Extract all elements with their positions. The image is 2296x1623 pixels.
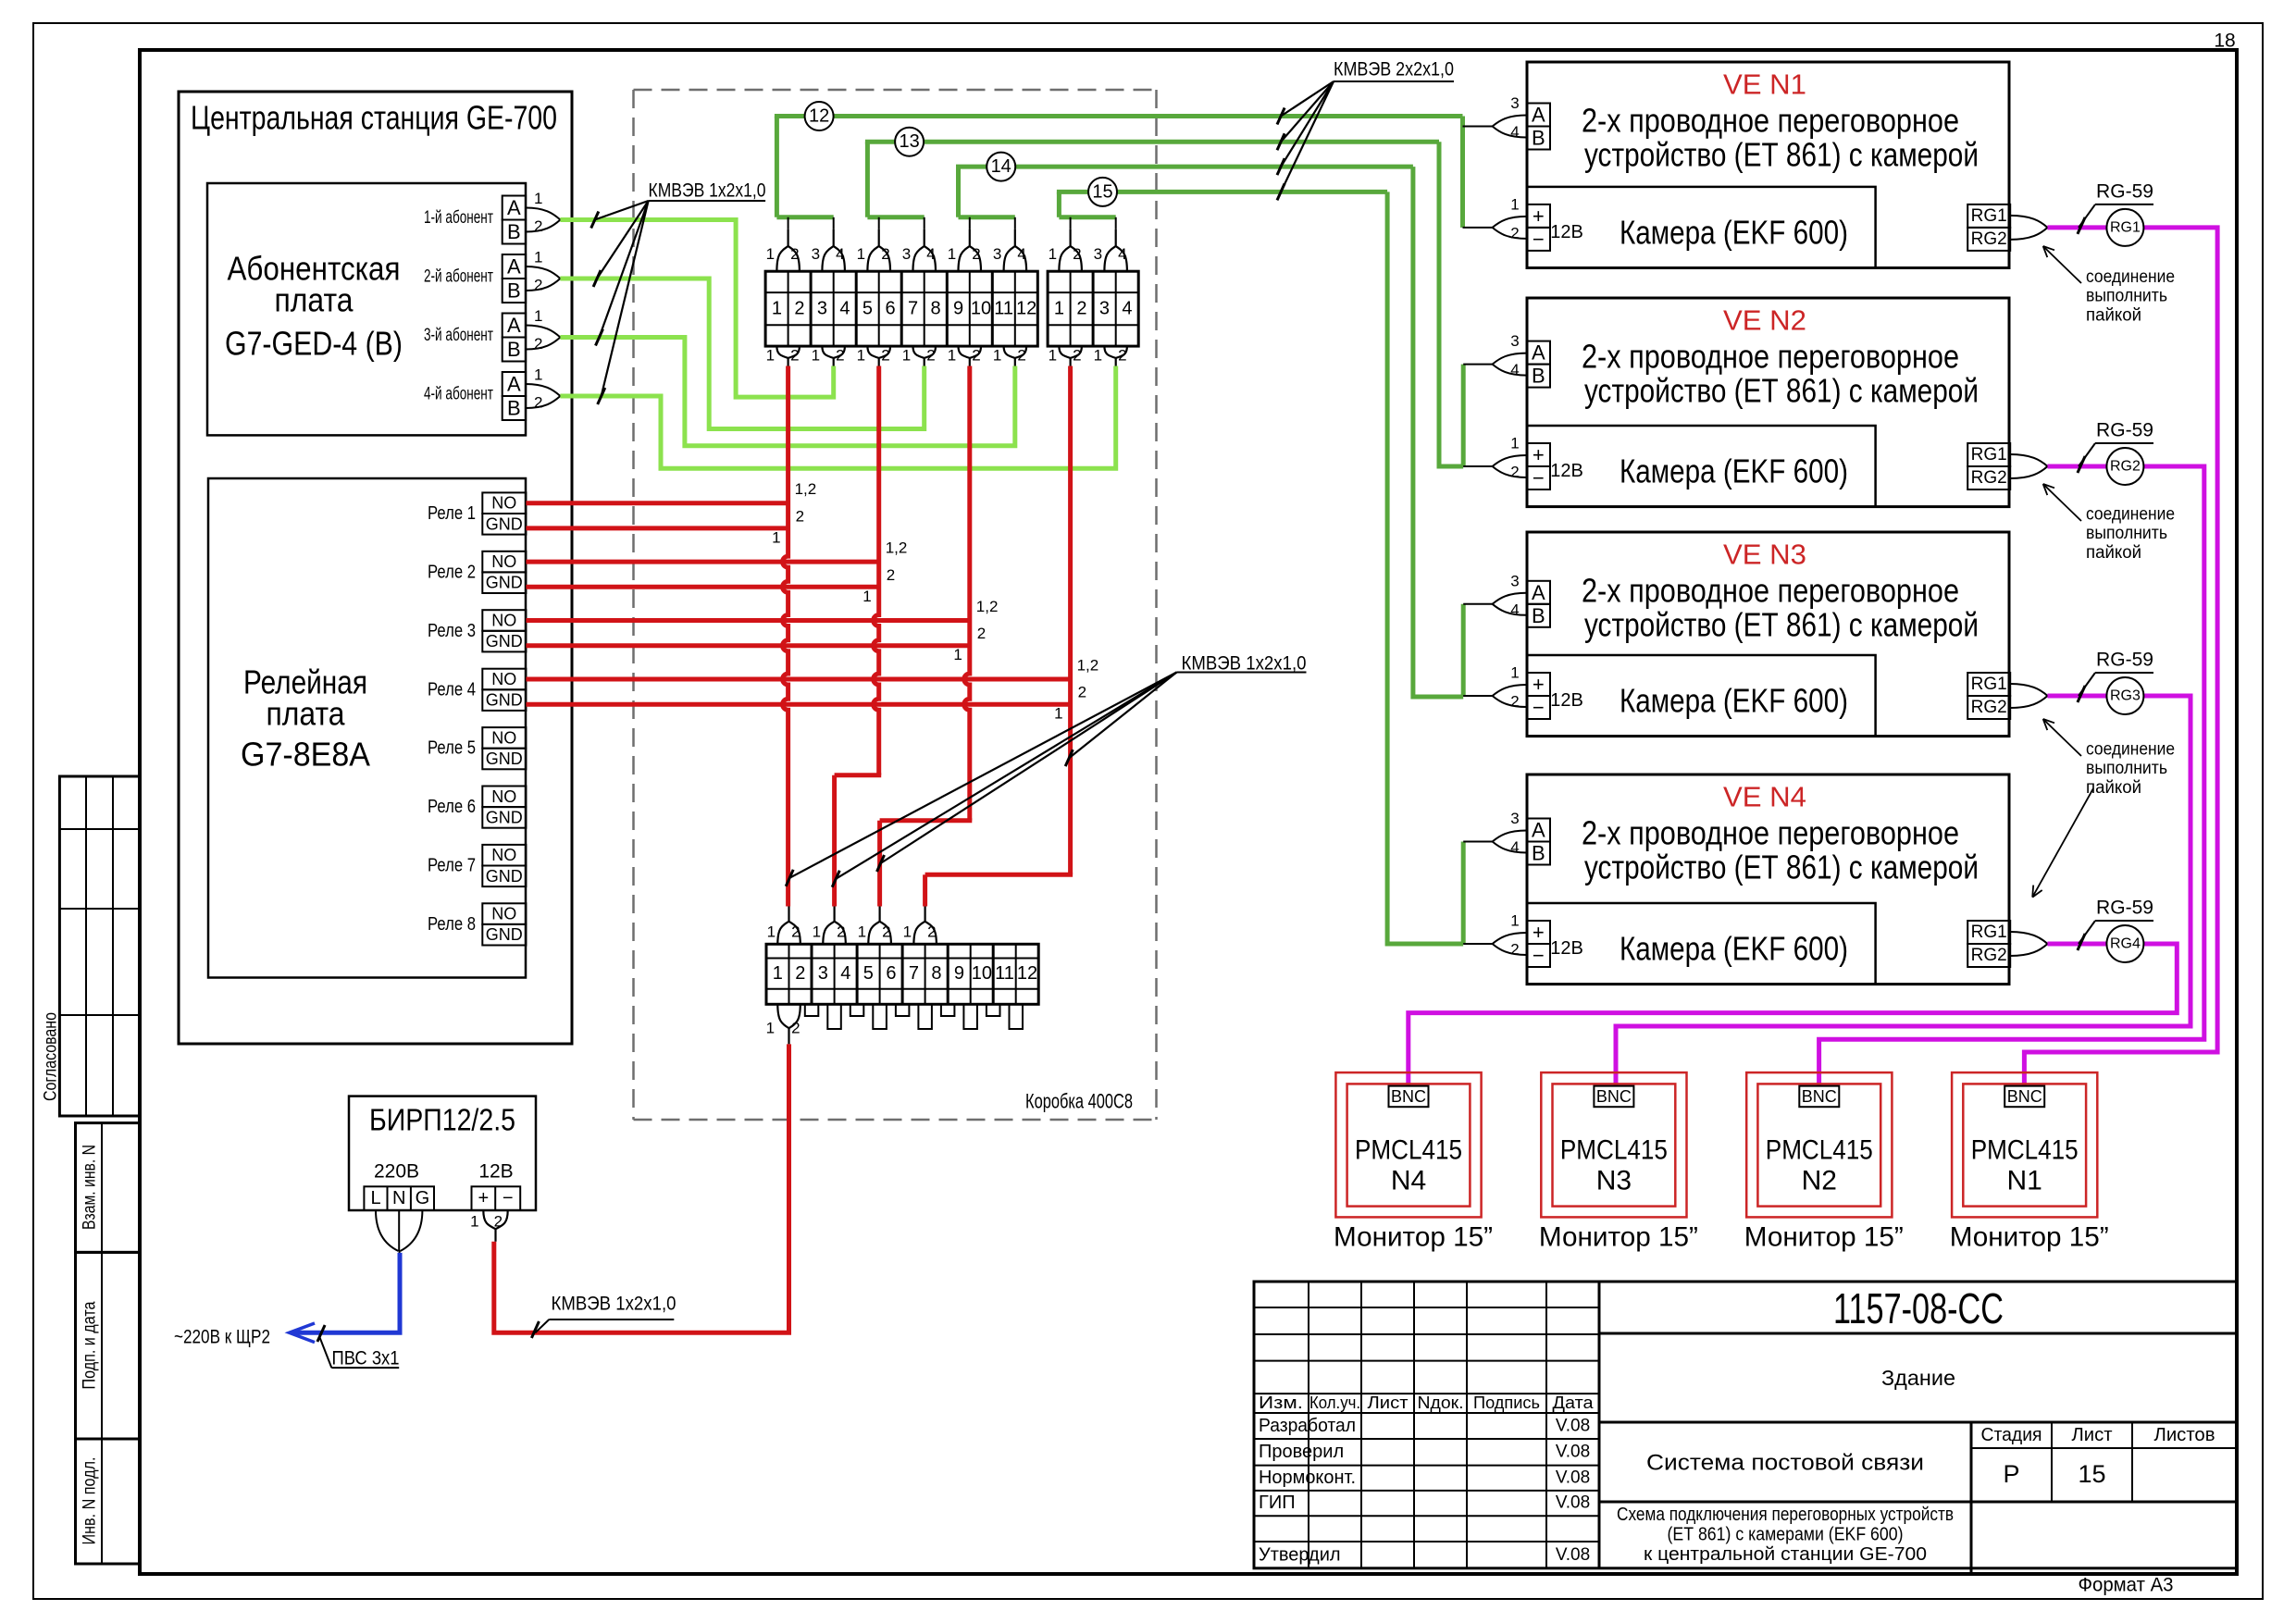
wire subscriber 1 A/B pair (КМВЭВ 1х2х1,0) <box>560 220 833 398</box>
document code 1157-08-СС <box>1833 1284 2004 1332</box>
title block grid <box>1254 1282 2237 1574</box>
svg-text:12В: 12В <box>1550 222 1583 242</box>
svg-text:9: 9 <box>954 963 964 984</box>
subscriber board box G7-GED-4 <box>207 183 526 435</box>
svg-text:RG1: RG1 <box>1971 206 2007 226</box>
svg-text:1: 1 <box>1094 347 1102 365</box>
wire subscriber 2 A/B pair (КМВЭВ 1х2х1,0) <box>560 279 924 429</box>
svg-text:КМВЭВ 1х2х1,0: КМВЭВ 1х2х1,0 <box>552 1294 676 1315</box>
monitor N1 labels <box>1950 1135 2109 1253</box>
coax cable RG-59 N1 (VE N1 to monitor) <box>2024 228 2217 1092</box>
monitor N3 labels <box>1539 1135 1698 1253</box>
cable circle RG4 <box>2106 925 2143 962</box>
svg-text:Подп. и дата: Подп. и дата <box>81 1301 100 1389</box>
note solder joint RG1 <box>2043 246 2175 325</box>
svg-text:1: 1 <box>1510 912 1519 930</box>
svg-text:2-х проводное переговорное: 2-х проводное переговорное <box>1582 102 1959 140</box>
svg-text:Стадия: Стадия <box>1981 1425 2042 1445</box>
svg-text:RG1: RG1 <box>1971 675 2007 694</box>
svg-text:1: 1 <box>773 963 783 984</box>
cable circle RG3 <box>2106 677 2143 714</box>
svg-text:3: 3 <box>993 245 1001 263</box>
strip X1 bottom pair bridge pins 1-2 (cells 1-2) <box>766 346 800 365</box>
label 2-х проводное переговорное устройство (ЕТ 861) с камерой N2 <box>1582 338 1979 410</box>
svg-text:КМВЭВ 2х2х1,0: КМВЭВ 2х2х1,0 <box>1334 59 1454 81</box>
VE N2 camera terminals +/- 12В pins 1 2 <box>1463 435 1583 490</box>
svg-text:14: 14 <box>991 156 1011 177</box>
strip X1 top pair bridge pins 5-6 <box>857 229 890 271</box>
svg-text:5: 5 <box>863 963 874 984</box>
svg-text:2: 2 <box>534 217 542 235</box>
svg-text:BNC: BNC <box>2007 1087 2042 1106</box>
strip X3 common-bus jumpers <box>805 1004 1023 1029</box>
svg-text:2: 2 <box>977 625 986 642</box>
svg-text:2: 2 <box>1510 693 1519 711</box>
svg-text:B: B <box>507 338 521 361</box>
svg-text:GND: GND <box>486 632 523 650</box>
strip X3 top pair bridge pins 1-2 (cells 5-6) <box>858 907 891 945</box>
svg-text:устройство (ЕТ 861) с камерой: устройство (ЕТ 861) с камерой <box>1584 606 1979 644</box>
svg-text:RG4: RG4 <box>2110 936 2141 952</box>
svg-text:плата: плата <box>275 281 354 319</box>
svg-text:V.08: V.08 <box>1556 1443 1590 1462</box>
stamp block Согласовано <box>42 776 141 1116</box>
svg-text:12В: 12В <box>1550 690 1583 711</box>
wire red riser 3 (strip X1/X2 to strip X3) <box>880 366 973 907</box>
svg-text:1: 1 <box>767 923 776 941</box>
svg-text:2: 2 <box>1118 347 1126 365</box>
svg-text:Дата: Дата <box>1553 1394 1595 1412</box>
svg-text:2: 2 <box>790 245 799 263</box>
VE N2 terminals RG1/RG2 <box>1967 443 2047 489</box>
strip X1 top pair bridge pins 11-12 <box>993 229 1026 271</box>
svg-text:RG-59: RG-59 <box>2096 650 2153 671</box>
wire relay 4 NO to riser <box>526 677 1070 682</box>
wire red riser 4 (strip X1/X2 to strip X3) <box>925 366 1074 907</box>
svg-text:2: 2 <box>1073 245 1081 263</box>
svg-text:RG2: RG2 <box>1971 698 2007 717</box>
svg-text:B: B <box>507 279 521 303</box>
svg-text:6: 6 <box>885 299 895 319</box>
svg-text:устройство (ЕТ 861) с камерой: устройство (ЕТ 861) с камерой <box>1584 372 1979 410</box>
svg-text:Проверил: Проверил <box>1259 1442 1344 1462</box>
svg-text:к центральной станции GE-700: к центральной станции GE-700 <box>1644 1544 1927 1565</box>
svg-text:3: 3 <box>1099 299 1110 319</box>
intercom unit VE N2 box <box>1527 298 2009 507</box>
sheet number 18 <box>2214 31 2235 52</box>
svg-text:11: 11 <box>995 963 1014 984</box>
strip X1 bottom pair bridge pins 1-2 (cells 11-12) <box>993 346 1026 365</box>
svg-text:3: 3 <box>817 299 827 319</box>
svg-text:выполнить: выполнить <box>2086 287 2167 306</box>
subscriber port 3 terminals A/B <box>424 307 560 362</box>
cable 15 КМВЭВ 2х2х1,0 to VE N4 <box>1057 192 1463 946</box>
svg-text:V.08: V.08 <box>1556 1493 1590 1513</box>
relay 4 terminals NO/GND <box>428 669 526 711</box>
svg-text:1: 1 <box>948 245 956 263</box>
svg-text:Инв. N подл.: Инв. N подл. <box>81 1457 100 1545</box>
svg-text:B: B <box>1532 604 1545 627</box>
relay board box G7-8E8A <box>208 478 526 978</box>
svg-text:устройство (ЕТ 861) с камерой: устройство (ЕТ 861) с камерой <box>1584 849 1979 886</box>
svg-text:11: 11 <box>994 299 1013 319</box>
svg-text:Реле 3: Реле 3 <box>428 621 476 641</box>
coax cable RG-59 N2 (VE N2 to monitor) <box>1819 466 2204 1092</box>
svg-text:2: 2 <box>794 299 804 319</box>
svg-text:BNC: BNC <box>1391 1087 1426 1106</box>
title block signature rows <box>1259 1416 1590 1566</box>
monitor PMCL415 N4 box <box>1335 1072 1481 1217</box>
svg-text:соединение: соединение <box>2086 505 2175 525</box>
VE N1 camera terminals +/- 12В pins 1 2 <box>1463 195 1583 251</box>
svg-text:Реле 8: Реле 8 <box>428 914 476 935</box>
svg-text:2: 2 <box>1076 299 1086 319</box>
strip X1 bottom pair bridge pins 1-2 (cells 5-6) <box>857 346 890 365</box>
label Коробка 400С8 <box>1025 1090 1133 1113</box>
svg-text:4: 4 <box>1118 245 1126 263</box>
svg-text:RG3: RG3 <box>2110 688 2141 704</box>
svg-text:B: B <box>1532 842 1545 865</box>
svg-text:2: 2 <box>972 347 980 365</box>
svg-text:12В: 12В <box>1550 461 1583 481</box>
subscriber port 4 terminals A/B <box>424 366 560 421</box>
svg-text:2: 2 <box>1510 464 1519 481</box>
label Центральная станция GE-700 <box>191 99 557 137</box>
svg-text:1: 1 <box>1510 435 1519 452</box>
stamp block Взам. инв. N <box>76 1123 141 1253</box>
coax cable RG-59 N3 (VE N3 to monitor) <box>1616 696 2191 1092</box>
svg-text:BNC: BNC <box>1802 1087 1837 1106</box>
note solder joint RG3/RG4 <box>2032 719 2175 898</box>
svg-text:4: 4 <box>840 963 850 984</box>
svg-text:+: + <box>1533 204 1545 228</box>
svg-text:2: 2 <box>926 347 935 365</box>
svg-text:V.08: V.08 <box>1556 1468 1590 1488</box>
svg-text:NO: NO <box>491 787 516 806</box>
label Абонентская плата G7-GED-4 (В) <box>225 250 403 363</box>
label RG-59 N2 with leader <box>2078 420 2153 474</box>
title block header row labels <box>1259 1394 1595 1412</box>
svg-text:N: N <box>392 1188 405 1208</box>
svg-text:−: − <box>503 1188 514 1208</box>
svg-text:B: B <box>1532 127 1545 150</box>
svg-text:V.08: V.08 <box>1556 1545 1590 1565</box>
monitor N4 labels <box>1334 1135 1493 1253</box>
monitor N2 BNC connector <box>1799 1086 1839 1108</box>
label VE N1 <box>1723 68 1806 101</box>
svg-text:NO: NO <box>491 905 516 923</box>
label 2-х проводное переговорное устройство (ЕТ 861) с камерой N1 <box>1582 102 1979 174</box>
svg-text:4: 4 <box>1510 838 1519 856</box>
svg-text:1: 1 <box>1049 245 1057 263</box>
svg-text:Nдок.: Nдок. <box>1418 1394 1464 1412</box>
svg-text:2: 2 <box>1017 347 1025 365</box>
terminals L N G <box>364 1186 434 1210</box>
svg-text:NO: NO <box>491 846 516 864</box>
svg-text:4: 4 <box>839 299 850 319</box>
svg-text:−: − <box>1533 466 1545 489</box>
svg-text:RG1: RG1 <box>1971 923 2007 942</box>
svg-text:5: 5 <box>863 299 873 319</box>
svg-text:2: 2 <box>796 507 804 525</box>
svg-text:соединение: соединение <box>2086 267 2175 287</box>
strip X3 top pair bridge pins 1-2 (cells 7-8) <box>903 907 937 945</box>
strip X3 top pair bridge pins 1-2 (cells 1-2) <box>767 907 800 945</box>
svg-text:Коробка 400С8: Коробка 400С8 <box>1025 1090 1133 1113</box>
svg-text:13: 13 <box>899 131 919 152</box>
svg-text:КМВЭВ 1х2х1,0: КМВЭВ 1х2х1,0 <box>1182 653 1307 675</box>
relay 5 terminals NO/GND <box>428 727 526 769</box>
svg-text:2: 2 <box>534 394 542 412</box>
svg-text:пайкой: пайкой <box>2086 778 2141 798</box>
svg-text:2: 2 <box>887 566 895 584</box>
stamp block Инв. N подл. <box>76 1439 141 1564</box>
svg-text:Р: Р <box>2003 1460 2019 1488</box>
svg-text:3: 3 <box>1510 94 1519 112</box>
relay 7 terminals NO/GND <box>428 845 526 886</box>
svg-text:4: 4 <box>1510 601 1519 618</box>
svg-text:1: 1 <box>766 347 775 365</box>
svg-text:VE N4: VE N4 <box>1723 781 1806 813</box>
strip X2 bottom pair bridge pins 1-2 (cells 3-4) <box>1094 346 1127 365</box>
svg-text:RG-59: RG-59 <box>2096 180 2153 202</box>
wire number circle 13 <box>895 128 924 156</box>
svg-text:Лист: Лист <box>2072 1425 2113 1445</box>
label КМВЭВ 1х2х1,0 middle with leaders to risers <box>786 653 1306 887</box>
bracket L N G to cable <box>376 1210 422 1253</box>
svg-text:+: + <box>1533 443 1545 466</box>
svg-text:пайкой: пайкой <box>2086 543 2141 563</box>
svg-text:RG-59: RG-59 <box>2096 420 2153 441</box>
svg-text:NO: NO <box>491 728 516 747</box>
svg-text:1: 1 <box>948 347 956 365</box>
strip X1 top pair bridge pins 1-2 <box>766 229 800 271</box>
svg-text:Изм.: Изм. <box>1259 1394 1303 1412</box>
svg-text:Монитор 15”: Монитор 15” <box>1744 1222 1904 1253</box>
svg-text:ПВС 3х1: ПВС 3х1 <box>332 1348 400 1369</box>
object name Здание <box>1881 1366 1955 1390</box>
svg-text:4: 4 <box>1510 361 1519 378</box>
svg-text:2-х проводное переговорное: 2-х проводное переговорное <box>1582 572 1959 610</box>
svg-text:A: A <box>1532 819 1545 842</box>
svg-text:N2: N2 <box>1802 1166 1837 1196</box>
wire red riser 2 (strip X1/X2 to strip X3) <box>835 366 882 907</box>
cable circle RG2 <box>2106 448 2143 485</box>
stamp block Подп. и дата <box>76 1252 141 1439</box>
svg-text:B: B <box>507 220 521 243</box>
svg-text:Реле 2: Реле 2 <box>428 562 476 582</box>
svg-text:Взам. инв. N: Взам. инв. N <box>81 1145 100 1230</box>
svg-text:Монитор 15”: Монитор 15” <box>1539 1222 1698 1253</box>
svg-text:220В: 220В <box>374 1161 419 1183</box>
svg-text:Реле 7: Реле 7 <box>428 856 476 876</box>
svg-text:VE N1: VE N1 <box>1723 68 1806 101</box>
relay 6 terminals NO/GND <box>428 787 526 828</box>
wire relay 2 NO to riser <box>526 560 878 564</box>
strip X3 bottom bridge pins 1-2 (power feed) <box>766 1004 800 1044</box>
svg-text:15: 15 <box>1092 181 1112 202</box>
svg-text:выполнить: выполнить <box>2086 524 2167 543</box>
label 2-х проводное переговорное устройство (ЕТ 861) с камерой N4 <box>1582 814 1979 886</box>
camera box Камера (EKF 600) N2 <box>1527 426 1876 507</box>
svg-text:N1: N1 <box>2007 1166 2042 1196</box>
svg-text:RG2: RG2 <box>2110 459 2141 475</box>
VE N3 terminals A/B with pins 3 4 <box>1463 572 1550 627</box>
svg-text:1157-08-СС: 1157-08-СС <box>1833 1284 2004 1332</box>
relay 3 terminals NO/GND <box>428 610 526 651</box>
svg-text:Камера (EKF 600): Камера (EKF 600) <box>1620 213 1848 251</box>
strip X1 top pair bridge pins 9-10 <box>948 229 981 271</box>
svg-text:RG2: RG2 <box>1971 468 2007 488</box>
relay 8 terminals NO/GND <box>428 903 526 945</box>
monitor N1 BNC connector <box>2004 1086 2044 1108</box>
svg-text:2: 2 <box>1078 684 1086 701</box>
wire relay 1 GND to riser <box>526 526 788 530</box>
svg-text:3: 3 <box>902 245 911 263</box>
stage P sheet 15 <box>2003 1460 2105 1488</box>
subscriber port 2 terminals A/B <box>424 249 560 304</box>
svg-text:+: + <box>478 1188 489 1208</box>
label Релейная плата G7-8E8A <box>241 663 370 774</box>
label VE N4 <box>1723 781 1806 813</box>
wire subscriber 3 A/B pair (КМВЭВ 1х2х1,0) <box>560 338 1014 446</box>
svg-text:−: − <box>1533 228 1545 251</box>
svg-text:1: 1 <box>1054 705 1062 723</box>
svg-text:1: 1 <box>534 249 542 266</box>
power supply box БИРП12/2.5 <box>349 1096 536 1210</box>
svg-text:1: 1 <box>857 347 865 365</box>
svg-text:1: 1 <box>857 245 865 263</box>
label RG-59 N4 with leader <box>2078 898 2153 951</box>
label RG-59 N1 with leader <box>2078 180 2153 234</box>
svg-text:Формат А3: Формат А3 <box>2079 1575 2174 1596</box>
labels 220В and 12В <box>374 1161 514 1183</box>
terminal strip X1 (12 cells) in junction box <box>765 271 1037 346</box>
wire number circle 14 <box>987 153 1015 181</box>
svg-text:RG2: RG2 <box>1971 229 2007 249</box>
svg-text:2: 2 <box>791 923 800 941</box>
svg-text:1: 1 <box>534 366 542 384</box>
svg-text:A: A <box>507 196 521 219</box>
VE N1 terminals RG1/RG2 <box>1967 204 2047 251</box>
VE N4 terminals A/B with pins 3 4 <box>1463 810 1550 865</box>
svg-text:1,2: 1,2 <box>795 480 817 498</box>
svg-text:1: 1 <box>858 923 866 941</box>
camera box Камера (EKF 600) N3 <box>1527 655 1876 737</box>
label VE N2 <box>1723 304 1806 337</box>
svg-text:1: 1 <box>993 347 1001 365</box>
svg-text:8: 8 <box>931 963 941 984</box>
svg-text:БИРП12/2.5: БИРП12/2.5 <box>369 1103 515 1137</box>
svg-text:Реле 1: Реле 1 <box>428 503 476 524</box>
svg-text:A: A <box>1532 104 1545 127</box>
wire relay 4 GND to riser <box>526 702 1070 707</box>
svg-text:4: 4 <box>926 245 935 263</box>
svg-text:плата: плата <box>267 695 346 733</box>
terminal strip X2 (4 cells) in junction box <box>1048 271 1138 346</box>
strip X3 top pair bridge pins 1-2 (cells 3-4) <box>813 907 846 945</box>
svg-text:2: 2 <box>1510 941 1519 959</box>
svg-text:12В: 12В <box>478 1161 513 1183</box>
svg-text:RG2: RG2 <box>1971 946 2007 965</box>
svg-text:G7-8E8A: G7-8E8A <box>241 736 370 774</box>
coax cable RG-59 N4 (VE N4 to monitor) <box>1409 944 2178 1092</box>
svg-text:1: 1 <box>1510 664 1519 682</box>
wire relay 2 GND to riser <box>526 585 878 589</box>
svg-text:(ЕТ 861) с камерами (EKF 600): (ЕТ 861) с камерами (EKF 600) <box>1668 1525 1904 1545</box>
monitor N3 BNC connector <box>1594 1086 1633 1108</box>
svg-text:Центральная станция GE-700: Центральная станция GE-700 <box>191 99 557 137</box>
strip X1/X2 top bridge stubs <box>788 217 1116 229</box>
label КМВЭВ 1х2х1,0 lower with leader <box>531 1294 676 1339</box>
svg-text:1-й абонент: 1-й абонент <box>424 208 493 228</box>
svg-text:Здание: Здание <box>1881 1366 1955 1390</box>
VE N4 camera terminals +/- 12В pins 1 2 <box>1463 912 1583 968</box>
strip X1 bottom pair bridge pins 1-2 (cells 7-8) <box>902 346 936 365</box>
svg-text:NO: NO <box>491 494 516 513</box>
svg-text:3: 3 <box>1510 810 1519 827</box>
svg-text:+: + <box>1533 673 1545 696</box>
svg-text:Подпись: Подпись <box>1473 1394 1540 1412</box>
svg-text:PMCL415: PMCL415 <box>1971 1135 2079 1166</box>
monitor PMCL415 N2 box <box>1746 1072 1892 1217</box>
svg-text:B: B <box>1532 365 1545 388</box>
label КМВЭВ 1х2х1,0 left with leaders <box>591 180 766 405</box>
svg-text:PMCL415: PMCL415 <box>1355 1135 1462 1166</box>
svg-text:2: 2 <box>927 923 936 941</box>
svg-text:1: 1 <box>772 528 780 546</box>
svg-text:1: 1 <box>953 646 962 663</box>
svg-text:L: L <box>370 1188 380 1208</box>
svg-text:Разработал: Разработал <box>1259 1416 1356 1436</box>
strip X1 bottom pair bridge pins 1-2 (cells 3-4) <box>812 346 845 365</box>
svg-text:Камера (EKF 600): Камера (EKF 600) <box>1620 930 1848 968</box>
bracket + - to cable pins 1 2 <box>470 1210 508 1242</box>
label RG-59 N3 with leader <box>2078 650 2153 703</box>
svg-text:GND: GND <box>486 808 523 826</box>
monitor PMCL415 N1 box <box>1952 1072 2097 1217</box>
camera box Камера (EKF 600) N4 <box>1527 903 1876 985</box>
junction labels relay 1 riser <box>772 480 816 546</box>
svg-text:4: 4 <box>836 245 844 263</box>
svg-text:2: 2 <box>790 347 799 365</box>
svg-text:V.08: V.08 <box>1556 1417 1590 1436</box>
svg-text:1,2: 1,2 <box>886 539 908 557</box>
svg-text:выполнить: выполнить <box>2086 759 2167 778</box>
svg-text:Согласовано: Согласовано <box>42 1012 61 1101</box>
svg-text:A: A <box>507 255 521 279</box>
svg-text:Лист: Лист <box>1368 1394 1409 1412</box>
svg-text:GND: GND <box>486 691 523 710</box>
wire relay 1 NO to riser <box>526 501 788 505</box>
junction box Коробка 400С8 dashed outline <box>634 90 1157 1120</box>
svg-text:Нормоконт.: Нормоконт. <box>1259 1468 1356 1488</box>
label VE N3 <box>1723 539 1806 571</box>
terminals + - <box>472 1186 521 1210</box>
strip X2 top pair bridge pins 3-4 <box>1094 229 1127 271</box>
junction labels relay 3 riser <box>953 598 998 663</box>
svg-text:2-й абонент: 2-й абонент <box>424 267 493 287</box>
svg-text:2: 2 <box>837 923 845 941</box>
drawing description text <box>1617 1505 1954 1565</box>
svg-text:1: 1 <box>534 190 542 207</box>
svg-text:3: 3 <box>1510 572 1519 589</box>
svg-text:A: A <box>507 314 521 337</box>
svg-text:A: A <box>507 373 521 396</box>
svg-text:10: 10 <box>972 963 992 984</box>
svg-text:1: 1 <box>812 347 820 365</box>
strip X2 bottom pair bridge pins 1-2 (cells 1-2) <box>1049 346 1082 365</box>
